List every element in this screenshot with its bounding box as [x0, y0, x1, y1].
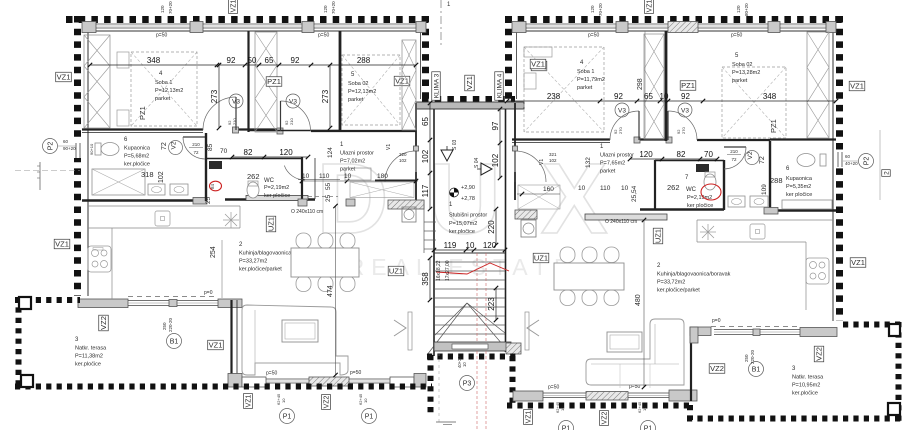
left unit main dim line	[90, 64, 416, 66]
svg-text:P=13,28m2: P=13,28m2	[732, 70, 760, 76]
svg-text:VZ1: VZ1	[851, 258, 865, 267]
right tv	[525, 312, 529, 350]
stair treads	[434, 252, 505, 254]
wc toilet left	[247, 182, 259, 198]
UZ1 labels right	[533, 253, 549, 263]
svg-text:Soba 1: Soba 1	[155, 80, 172, 86]
svg-text:P=5,35m2: P=5,35m2	[786, 184, 811, 190]
svg-text:10: 10	[302, 173, 310, 180]
svg-text:p=50: p=50	[548, 385, 559, 391]
svg-text:254: 254	[210, 246, 217, 258]
svg-text:P=33,72m2: P=33,72m2	[657, 280, 685, 286]
svg-text:V2: V2	[747, 151, 754, 159]
right unit entry left wall segment	[514, 103, 516, 146]
svg-text:321: 321	[549, 152, 557, 157]
svg-text:60: 60	[63, 139, 69, 144]
svg-text:VZ1: VZ1	[465, 76, 474, 90]
right dining table	[560, 247, 575, 263]
svg-text:P2: P2	[864, 157, 871, 166]
PZ1 closet	[255, 32, 277, 132]
right terrace checkered top	[843, 322, 903, 328]
P1 circles bottom left	[280, 409, 295, 424]
svg-text:92: 92	[614, 92, 623, 101]
VZ1 box left edge	[56, 72, 72, 82]
svg-text:160: 160	[543, 186, 554, 193]
svg-text:10: 10	[660, 92, 669, 101]
left terrace corner post top	[19, 297, 31, 309]
right soba1 bed	[524, 47, 604, 132]
svg-text:VZ1: VZ1	[231, 0, 238, 12]
svg-text:VZ2: VZ2	[710, 364, 724, 373]
VZ1 rotated bottom right living	[524, 410, 533, 425]
svg-text:Stubišni prostor: Stubišni prostor	[449, 213, 487, 219]
svg-text:70+20: 70+20	[331, 1, 336, 14]
left unit living bottom wall	[228, 374, 242, 388]
svg-text:273: 273	[210, 89, 219, 103]
svg-text:Kupaonica: Kupaonica	[124, 146, 151, 152]
right shower	[782, 200, 832, 209]
svg-text:288: 288	[770, 176, 783, 185]
sink left kitchen	[223, 212, 239, 228]
svg-text:P=5,68m2: P=5,68m2	[124, 154, 149, 160]
right terrace corner post top	[889, 324, 900, 336]
wall above wc left unit	[206, 158, 302, 160]
svg-text:O 240x110 cm: O 240x110 cm	[605, 219, 637, 225]
svg-text:P=15,07m2: P=15,07m2	[449, 221, 477, 227]
svg-text:10: 10	[466, 241, 475, 250]
svg-text:PZ1: PZ1	[138, 106, 147, 120]
right unit wc bottom / island	[640, 208, 724, 211]
right bath toilet	[797, 154, 815, 167]
entry door arc left unit	[385, 151, 416, 182]
svg-text:132: 132	[585, 157, 592, 168]
svg-text:25: 25	[325, 194, 332, 202]
svg-text:119: 119	[444, 241, 457, 250]
svg-text:Natkr. terasa: Natkr. terasa	[792, 375, 824, 381]
svg-text:10: 10	[621, 185, 629, 192]
tv/door leaf left	[408, 312, 412, 350]
svg-text:p=50: p=50	[266, 371, 277, 377]
svg-text:ker.pločice: ker.pločice	[124, 162, 150, 168]
svg-text:V1: V1	[539, 159, 545, 165]
svg-text:WC: WC	[264, 178, 275, 184]
svg-text:ker.pločice: ker.pločice	[449, 229, 475, 235]
porch checkered top	[427, 354, 516, 360]
wall PZ1 bottom segment	[248, 130, 340, 132]
VZ2 label left terrace	[99, 315, 109, 331]
svg-text:72: 72	[731, 157, 737, 162]
svg-text:210: 210	[192, 142, 200, 147]
svg-text:B1: B1	[170, 339, 179, 346]
boiler box left	[155, 211, 170, 226]
door wc arc left	[284, 166, 305, 181]
svg-text:70: 70	[220, 148, 228, 155]
svg-text:97: 97	[491, 121, 500, 130]
right hob	[806, 258, 829, 284]
svg-text:72: 72	[161, 142, 168, 150]
svg-text:220-20: 220-20	[168, 317, 173, 332]
red dashed verticals	[476, 253, 478, 342]
V3 arc right b	[668, 111, 697, 140]
hob left	[88, 246, 111, 272]
svg-text:V1: V1	[386, 144, 392, 150]
svg-text:92: 92	[681, 92, 690, 101]
svg-text:124: 124	[327, 147, 334, 158]
svg-text:110: 110	[600, 185, 611, 192]
svg-text:P=11,79m2: P=11,79m2	[577, 77, 605, 83]
svg-text:ker pločice: ker pločice	[264, 193, 290, 199]
klima 3 label	[432, 72, 441, 100]
svg-text:10: 10	[578, 185, 586, 192]
left terrace checkered left	[16, 297, 22, 390]
svg-text:KLIMA 4: KLIMA 4	[496, 73, 503, 98]
svg-text:474: 474	[327, 285, 334, 297]
right sofa	[586, 319, 684, 385]
centerline top	[440, 0, 442, 45]
wall PZ1 left vertical	[247, 31, 249, 132]
entry dim line	[302, 180, 418, 182]
right unit living bottom wall	[513, 391, 543, 401]
svg-text:270: 270	[618, 127, 623, 134]
svg-text:p=50: p=50	[318, 33, 329, 39]
svg-text:72: 72	[759, 156, 766, 164]
svg-text:60: 60	[845, 154, 851, 159]
svg-text:p=0: p=0	[712, 318, 721, 324]
svg-text:VZ1: VZ1	[531, 60, 545, 69]
V3 circle right a	[615, 103, 629, 117]
svg-text:92: 92	[227, 56, 236, 65]
bathroom bottom wall left unit	[82, 199, 205, 202]
svg-text:O 240x110 cm: O 240x110 cm	[291, 209, 323, 215]
svg-text:318: 318	[141, 170, 154, 179]
red circle left wc	[210, 181, 222, 191]
right unit kitchen bottom wall	[690, 327, 711, 336]
svg-text:10: 10	[462, 362, 467, 367]
svg-text:ker.pločice/parket: ker.pločice/parket	[657, 288, 700, 294]
VZ1 label right kitchen	[850, 258, 866, 268]
stair landing line	[434, 252, 505, 254]
entry bottom wall line	[375, 180, 416, 182]
svg-text:p=0: p=0	[204, 290, 213, 296]
svg-text:parket: parket	[577, 85, 593, 91]
svg-text:120: 120	[590, 5, 595, 13]
washbasins left unit	[148, 184, 165, 195]
left unit vdims 273	[218, 65, 220, 128]
shower	[92, 169, 145, 195]
V3 arc right a	[610, 111, 639, 140]
right unit exterior wall left (court side)	[505, 16, 512, 99]
entry hall left wall (wc right)	[301, 157, 303, 199]
svg-text:70: 70	[704, 150, 713, 159]
small ground mark	[438, 353, 440, 422]
svg-text:102: 102	[491, 153, 500, 167]
triangle S03	[441, 150, 453, 161]
svg-text:220: 220	[487, 220, 496, 234]
svg-text:210: 210	[289, 118, 294, 125]
svg-text:72: 72	[193, 150, 199, 155]
right terrace checkered left step	[687, 405, 693, 420]
klima 4 label	[495, 72, 504, 100]
coffee table left	[282, 320, 318, 342]
svg-text:273: 273	[321, 89, 330, 103]
svg-text:270: 270	[681, 127, 686, 134]
court bottom checkered wall	[422, 96, 515, 103]
VZ2 rotated bottom right living	[600, 411, 609, 426]
svg-text:P=11,38m2: P=11,38m2	[75, 354, 103, 360]
svg-text:p=50: p=50	[731, 33, 742, 39]
VZ1 court center label	[465, 75, 475, 91]
VZ1 box right edge	[849, 81, 865, 91]
svg-text:V3: V3	[289, 98, 297, 105]
right unit hall wall stub	[654, 160, 656, 209]
svg-text:220: 220	[399, 152, 407, 157]
svg-text:16x18,22: 16x18,22	[436, 260, 442, 281]
svg-text:UZ1: UZ1	[654, 229, 663, 243]
court wall gray band below checkered	[416, 102, 524, 109]
svg-text:P1: P1	[644, 426, 653, 430]
svg-text:ker.pločice/parket: ker.pločice/parket	[239, 267, 282, 273]
svg-text:92: 92	[291, 56, 300, 65]
VZ1 label left of court	[394, 76, 410, 86]
svg-text:480: 480	[635, 294, 642, 306]
watermark	[316, 143, 647, 280]
right coffee table	[607, 332, 642, 352]
V3 door circle a	[229, 94, 243, 108]
right entry door arc	[515, 151, 546, 182]
right unit bedroom bottom wall	[512, 138, 610, 140]
kitchen counter top strip left	[88, 227, 112, 229]
svg-text:Kuhinja/blagovaonica/boravak: Kuhinja/blagovaonica/boravak	[657, 272, 731, 278]
svg-text:PZ1: PZ1	[769, 119, 778, 133]
svg-text:VZ1: VZ1	[526, 410, 533, 423]
svg-text:VZ1: VZ1	[246, 394, 253, 407]
right terrace checkered bottom	[687, 416, 903, 422]
svg-text:parket: parket	[600, 169, 616, 175]
svg-text:2: 2	[883, 171, 890, 175]
right unit wc divider	[723, 160, 725, 210]
right terrace corner post bottom	[888, 403, 900, 415]
svg-text:10: 10	[281, 398, 286, 403]
svg-text:P3: P3	[463, 381, 472, 388]
svg-text:65: 65	[421, 117, 430, 126]
right boiler	[750, 224, 765, 239]
svg-text:109: 109	[761, 184, 768, 195]
svg-text:p=50: p=50	[588, 33, 599, 39]
V3 circle right b	[678, 103, 692, 117]
VZ1 vertical top left	[229, 0, 238, 13]
svg-text:358: 358	[421, 272, 430, 286]
svg-text:Soba 1: Soba 1	[577, 69, 594, 75]
svg-text:VZ2: VZ2	[99, 316, 108, 330]
entry closet X	[350, 182, 414, 198]
step wall x=231 left unit	[230, 300, 232, 386]
svg-text:V2: V2	[171, 141, 178, 149]
svg-text:P2: P2	[48, 142, 55, 151]
shaft hatched right	[515, 210, 537, 219]
svg-text:ker.pločice: ker.pločice	[792, 391, 818, 397]
VZ2 label right unit horizontal	[709, 364, 725, 374]
svg-text:223: 223	[487, 297, 496, 311]
svg-text:VZ1: VZ1	[850, 82, 864, 91]
svg-text:10: 10	[344, 173, 352, 180]
svg-text:102: 102	[399, 158, 407, 163]
left unit exterior wall top	[66, 16, 429, 23]
entry right wall segment left unit	[415, 103, 417, 146]
svg-text:B1: B1	[752, 367, 761, 374]
left edge marks	[43, 139, 58, 154]
svg-text:70+20: 70+20	[168, 1, 173, 14]
svg-text:VZ2: VZ2	[815, 347, 824, 361]
svg-text:120: 120	[279, 148, 293, 157]
svg-text:VZ2: VZ2	[602, 411, 609, 424]
porch checkered left vertical	[428, 355, 434, 413]
svg-text:S 03: S 03	[452, 139, 458, 150]
svg-text:120: 120	[323, 5, 328, 13]
bathroom window right wall	[835, 152, 846, 167]
svg-text:120: 120	[160, 5, 165, 13]
svg-text:85: 85	[207, 143, 214, 151]
svg-text:VZ2: VZ2	[324, 395, 331, 408]
svg-text:P1: P1	[283, 414, 292, 421]
soba02 bottom wall	[340, 130, 416, 132]
svg-text:Natkr. terasa: Natkr. terasa	[75, 346, 107, 352]
V3 door circle b	[286, 94, 300, 108]
svg-text:ker pločice: ker pločice	[687, 203, 713, 209]
hall dims left	[232, 156, 308, 158]
svg-text:+2,90: +2,90	[461, 185, 475, 191]
VZ1 vertical top right	[645, 0, 654, 13]
svg-text:ker.pločice: ker.pločice	[75, 362, 101, 368]
right unit top wall windows	[512, 22, 526, 33]
svg-text:PZ1: PZ1	[681, 81, 695, 90]
right terrace checkered right	[896, 322, 902, 421]
svg-text:parket: parket	[340, 167, 356, 173]
shaft hatched left	[388, 200, 424, 209]
svg-text:10: 10	[642, 406, 647, 411]
svg-text:KLIMA 3: KLIMA 3	[433, 73, 440, 98]
right kitchen counter	[697, 241, 806, 243]
stair bottom wall	[434, 342, 511, 351]
svg-text:180: 180	[377, 173, 388, 180]
svg-text:250: 250	[744, 354, 749, 362]
svg-text:220-20: 220-20	[750, 349, 755, 364]
svg-text:238: 238	[547, 92, 561, 101]
svg-text:262: 262	[667, 183, 680, 192]
left unit top wall windows	[82, 22, 96, 33]
P1 circles bottom right	[559, 421, 574, 435]
right soba02 wardrobe	[807, 32, 829, 138]
right soba02 bed	[722, 67, 786, 138]
svg-text:70+20: 70+20	[598, 3, 603, 16]
left terrace checkered top	[15, 297, 80, 303]
right unit bathroom left wall	[769, 141, 771, 211]
UZ1 label left kitchen	[266, 216, 276, 232]
svg-text:UZ1: UZ1	[389, 267, 403, 276]
svg-text:40+20: 40+20	[845, 161, 858, 166]
svg-text:V3: V3	[681, 107, 689, 114]
stair upper flight treads	[424, 221, 436, 223]
B1 circle right terrace	[749, 362, 764, 377]
svg-text:UZ1: UZ1	[267, 217, 276, 231]
V2 label	[169, 141, 183, 155]
svg-text:110: 110	[319, 173, 330, 180]
svg-text:p=50: p=50	[350, 370, 361, 376]
svg-text:348: 348	[147, 56, 161, 65]
svg-text:17x27,00: 17x27,00	[445, 260, 451, 281]
svg-text:VZ1: VZ1	[647, 0, 654, 12]
svg-text:348: 348	[763, 92, 777, 101]
svg-text:P=12,13m2: P=12,13m2	[155, 88, 183, 94]
svg-text:65: 65	[644, 92, 653, 101]
dining table left	[296, 233, 311, 249]
svg-text:PZ1: PZ1	[267, 77, 281, 86]
svg-text:DUX: DUX	[316, 143, 647, 255]
svg-text:65: 65	[265, 56, 274, 65]
svg-text:120: 120	[483, 241, 497, 250]
svg-text:102: 102	[549, 158, 557, 163]
stair direction V	[427, 303, 467, 355]
stair dim line 119 10 120	[434, 249, 505, 251]
soba1 bed	[131, 52, 197, 126]
svg-text:VZ1: VZ1	[57, 73, 71, 82]
svg-text:210: 210	[730, 149, 738, 154]
wc divider wall left unit	[205, 133, 207, 201]
svg-text:+2,78: +2,78	[461, 196, 475, 202]
svg-text:Ulazni prostor: Ulazni prostor	[600, 153, 634, 159]
svg-text:VZ1: VZ1	[209, 341, 223, 350]
svg-text:84: 84	[210, 183, 215, 189]
stairwell walls	[433, 109, 435, 356]
svg-text:102: 102	[421, 149, 430, 163]
left unit kitchen bottom wall	[78, 299, 128, 308]
bathroom toilet	[101, 143, 119, 156]
UZ1 label left stair side	[388, 266, 404, 276]
right entry closet X	[518, 185, 560, 209]
svg-text:P=7,02m2: P=7,02m2	[340, 159, 365, 165]
svg-text:P=7,65m2: P=7,65m2	[600, 161, 625, 167]
svg-text:V3: V3	[618, 107, 626, 114]
VZ1 label left living	[208, 340, 224, 350]
svg-text:82: 82	[677, 150, 686, 159]
svg-text:102: 102	[158, 171, 165, 183]
left unit exterior wall right (court side)	[422, 16, 429, 99]
svg-text:P=10,95m2: P=10,95m2	[792, 383, 820, 389]
wall soba02 left vertical right unit	[665, 31, 668, 141]
svg-text:298: 298	[637, 78, 644, 90]
svg-text:120: 120	[639, 150, 653, 159]
svg-text:25,54: 25,54	[631, 185, 638, 202]
entry cabinet left	[345, 168, 371, 180]
wall below bedrooms left unit	[82, 128, 203, 130]
svg-text:120: 120	[736, 5, 741, 13]
svg-text:288: 288	[357, 56, 371, 65]
svg-text:P=2,19m2: P=2,19m2	[264, 185, 289, 191]
svg-text:10: 10	[560, 406, 565, 411]
stair court vdims	[429, 103, 431, 209]
B1 circle left terrace	[167, 334, 182, 349]
right unit top wall inner face	[512, 30, 836, 32]
court wall inner faces	[420, 24, 422, 99]
soba1 wardrobe left	[84, 35, 110, 128]
level marker	[454, 188, 459, 193]
bath door arc	[183, 136, 205, 138]
wc bottom wall / kitchen island left unit	[225, 198, 315, 201]
svg-text:90+10: 90+10	[89, 143, 94, 155]
left unit left wall inner face	[87, 24, 89, 296]
PZ1 label boxed	[266, 77, 282, 87]
svg-text:Kupaonica: Kupaonica	[786, 176, 813, 182]
right unit exterior wall top	[505, 16, 843, 23]
